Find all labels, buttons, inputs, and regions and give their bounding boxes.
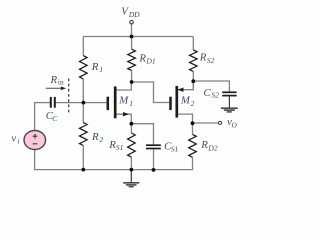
svg-text:1: 1 xyxy=(99,65,103,74)
svg-text:R: R xyxy=(138,53,146,65)
svg-text:S2: S2 xyxy=(211,91,219,100)
svg-text:O: O xyxy=(232,120,238,129)
wire top rail xyxy=(83,36,193,38)
wire RD1 top lead xyxy=(131,37,133,50)
svg-text:S1: S1 xyxy=(171,144,179,153)
svg-text:2: 2 xyxy=(191,99,195,108)
capacitor CC plates xyxy=(50,97,52,108)
wire gate segment CC to M1 gate xyxy=(56,102,107,104)
node CS1 bottom xyxy=(152,168,156,172)
wire CS2 top xyxy=(193,81,229,92)
transistor M2 source arrow xyxy=(178,88,183,92)
svg-text:DD: DD xyxy=(128,10,140,19)
source vi circle xyxy=(24,131,46,150)
transistor M2 gate bar xyxy=(169,97,172,110)
VDD terminal xyxy=(130,20,134,24)
Rin arrow xyxy=(46,87,63,89)
node VDD rail junction xyxy=(130,35,134,39)
node source M1 xyxy=(130,122,134,126)
wire drain M1 to gate M2 xyxy=(132,82,170,103)
resistor R1 xyxy=(80,56,88,79)
transistor M2 source leg xyxy=(178,81,193,90)
resistor RD2 xyxy=(189,134,197,157)
transistor M1 gate bar xyxy=(107,97,110,110)
node Rin dashed line xyxy=(68,78,70,114)
svg-text:M: M xyxy=(118,94,129,106)
svg-text:R: R xyxy=(200,139,208,151)
wire RS1 bottom lead xyxy=(130,157,132,170)
wire VDD stub xyxy=(131,24,133,37)
wire R2 bottom lead xyxy=(82,146,84,170)
svg-text:D1: D1 xyxy=(145,56,155,65)
resistor RS1 xyxy=(128,133,136,157)
source vi minus sign xyxy=(33,143,38,145)
transistor M1 source leg xyxy=(116,114,131,124)
transistor M2 channel bar xyxy=(175,86,178,118)
transistor M1 drain leg xyxy=(116,82,131,90)
svg-text:M: M xyxy=(180,94,191,106)
svg-text:2: 2 xyxy=(99,135,103,144)
wire R2 top lead xyxy=(82,103,84,123)
wire R1 bottom lead xyxy=(82,79,84,103)
svg-text:1: 1 xyxy=(129,99,133,108)
transistor M1 source arrow xyxy=(123,112,128,116)
ground main (below RS1 node) xyxy=(130,170,132,183)
node RS1 bottom / ground xyxy=(130,168,134,172)
svg-text:R: R xyxy=(199,52,207,64)
svg-text:R: R xyxy=(91,131,99,143)
wire gate segment vi to CC xyxy=(34,102,50,104)
svg-text:R: R xyxy=(91,61,99,73)
svg-text:C: C xyxy=(204,87,212,99)
vO terminal xyxy=(218,121,221,124)
wire RD2 bottom lead xyxy=(192,157,194,170)
wire output to vO terminal xyxy=(193,122,219,124)
wire RS1 top lead xyxy=(130,124,132,133)
svg-text:S2: S2 xyxy=(207,56,215,65)
source vi plus sign xyxy=(33,135,38,137)
wire RS2 top lead xyxy=(192,37,194,51)
wire left branch upper (R1 top lead) xyxy=(82,37,84,56)
wire RD1 bottom lead xyxy=(131,71,133,83)
wire vi top lead xyxy=(34,103,36,131)
wire CS1 top xyxy=(131,124,153,145)
svg-text:S1: S1 xyxy=(116,143,124,152)
node drain M1 xyxy=(130,80,134,84)
wire M2 source vertical xyxy=(192,81,194,90)
svg-text:in: in xyxy=(58,78,64,87)
wire bottom rail xyxy=(35,169,193,171)
svg-text:i: i xyxy=(17,137,19,146)
resistor RD1 xyxy=(128,49,136,70)
svg-text:v: v xyxy=(11,134,16,145)
node gate M1 (R1/R2) xyxy=(82,101,86,105)
capacitor CS2 plates xyxy=(222,91,236,93)
wire RD2 top lead xyxy=(192,123,194,134)
svg-text:R: R xyxy=(50,74,58,86)
wire vi bottom lead xyxy=(34,149,36,170)
resistor RS2 xyxy=(190,50,198,71)
node output (drain M2) xyxy=(191,121,195,125)
resistor R2 xyxy=(80,123,88,146)
svg-text:D2: D2 xyxy=(207,144,217,153)
ground CS2 xyxy=(228,96,230,108)
transistor M2 drain leg xyxy=(178,114,193,123)
capacitor CS1 plates xyxy=(146,144,161,146)
wire CS1 bottom lead xyxy=(153,149,155,169)
wire RS2 bottom lead xyxy=(192,71,194,81)
node source M2 xyxy=(191,79,195,83)
transistor M1 channel bar xyxy=(114,86,117,118)
node R2 bottom xyxy=(81,168,85,172)
